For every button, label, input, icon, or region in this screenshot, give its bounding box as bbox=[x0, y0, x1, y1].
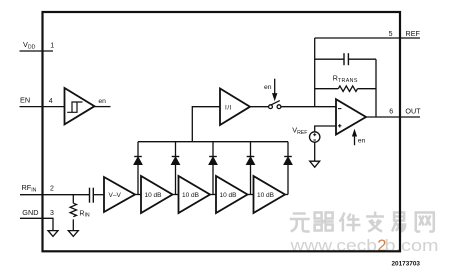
VREF voltage source bbox=[310, 132, 320, 142]
watermark url text www.cecb2b.com bbox=[289, 236, 438, 255]
feedback right vertical wire bbox=[375, 59, 377, 117]
detector diode D3 bbox=[209, 142, 217, 195]
summing bus wire bbox=[138, 141, 288, 143]
wire bus to I/I converter bbox=[192, 107, 220, 142]
resistor RIN bbox=[70, 195, 76, 231]
pin 2 RFIN wire bbox=[20, 194, 89, 196]
pin 3 GND wire bbox=[20, 218, 53, 230]
output op-amp U3 bbox=[336, 99, 366, 134]
svg-text:RFIN: RFIN bbox=[22, 183, 37, 193]
svg-text:I/I: I/I bbox=[225, 104, 232, 111]
pin 4 EN wire bbox=[20, 106, 65, 108]
coupling capacitor bbox=[90, 188, 105, 203]
svg-text:5: 5 bbox=[389, 31, 393, 38]
10 dB amplifier A2 bbox=[179, 176, 211, 213]
I/I converter U2 bbox=[220, 89, 250, 126]
char 器 bbox=[314, 213, 334, 231]
pin 6 OUT wire bbox=[366, 116, 420, 118]
VREF source wire to noninverting input bbox=[315, 126, 336, 132]
10 dB amplifier A3 bbox=[216, 176, 248, 213]
svg-text:10 dB: 10 dB bbox=[182, 192, 199, 199]
pin 1 VDD wire bbox=[20, 50, 54, 52]
wire stage3 to stage4 bbox=[248, 194, 254, 196]
svg-text:en: en bbox=[264, 84, 272, 91]
schmitt trigger buffer U-EN bbox=[65, 88, 95, 124]
10 dB amplifier A4 bbox=[254, 176, 286, 213]
svg-text:OUT: OUT bbox=[405, 107, 421, 116]
svg-text:RIN: RIN bbox=[79, 210, 90, 218]
svg-text:1: 1 bbox=[50, 43, 54, 50]
wire V-V to stage 1 bbox=[135, 194, 141, 196]
enable switch S1 bbox=[269, 101, 281, 109]
char 元 bbox=[290, 214, 310, 232]
svg-text:2: 2 bbox=[50, 186, 54, 193]
svg-text:EN: EN bbox=[20, 96, 30, 105]
en control arrow at switch bbox=[273, 79, 277, 100]
watermark chinese characters 元器件交易网 bbox=[290, 212, 434, 232]
en signal wire from buffer bbox=[95, 106, 111, 108]
char 件 bbox=[339, 213, 360, 232]
ground symbol at VREF bbox=[310, 161, 320, 167]
10 dB amplifier A1 bbox=[141, 176, 173, 213]
svg-text:10 dB: 10 dB bbox=[257, 192, 274, 199]
svg-text:VDD: VDD bbox=[23, 40, 36, 50]
svg-text:en: en bbox=[98, 98, 106, 105]
detector diode D4 bbox=[247, 142, 255, 195]
svg-text:6: 6 bbox=[389, 109, 393, 116]
detector diode D2 bbox=[172, 142, 180, 195]
wire switch to op-amp inverting input bbox=[281, 106, 336, 108]
svg-text:RTRANS: RTRANS bbox=[333, 76, 358, 84]
wire VREF to ground bbox=[314, 142, 316, 161]
svg-text:3: 3 bbox=[50, 210, 54, 217]
ground symbol at RIN bbox=[68, 231, 78, 237]
svg-text:GND: GND bbox=[22, 208, 38, 217]
svg-text:10 dB: 10 dB bbox=[220, 192, 237, 199]
V-V amplifier A0 bbox=[104, 177, 135, 212]
svg-text:VREF: VREF bbox=[292, 126, 307, 137]
svg-text:en: en bbox=[358, 138, 366, 145]
wire I/I to switch bbox=[250, 106, 269, 108]
wire stage2 to stage3 bbox=[210, 194, 216, 196]
svg-text:V–V: V–V bbox=[109, 192, 122, 199]
detector diode D1 bbox=[134, 142, 142, 195]
char 网 bbox=[416, 213, 434, 232]
svg-text:10 dB: 10 dB bbox=[145, 192, 162, 199]
resistor RTRANS bbox=[315, 86, 376, 92]
char 易 bbox=[392, 213, 405, 232]
ground symbol at GND pin bbox=[48, 231, 58, 237]
IC boundary box bbox=[43, 12, 401, 251]
feedback capacitor bbox=[315, 53, 376, 65]
detector diode D5 bbox=[284, 142, 292, 195]
en enable arrow at op-amp bbox=[353, 131, 356, 145]
pin 5 REF wire bbox=[315, 37, 420, 39]
svg-text:4: 4 bbox=[49, 98, 53, 105]
char 交 bbox=[366, 212, 384, 232]
feedback node vertical wire bbox=[314, 38, 316, 107]
wire stage4 to last tap bbox=[285, 194, 288, 196]
svg-text:20173703: 20173703 bbox=[392, 260, 421, 267]
svg-text:REF: REF bbox=[406, 29, 421, 38]
wire stage1 to stage2 bbox=[173, 194, 179, 196]
